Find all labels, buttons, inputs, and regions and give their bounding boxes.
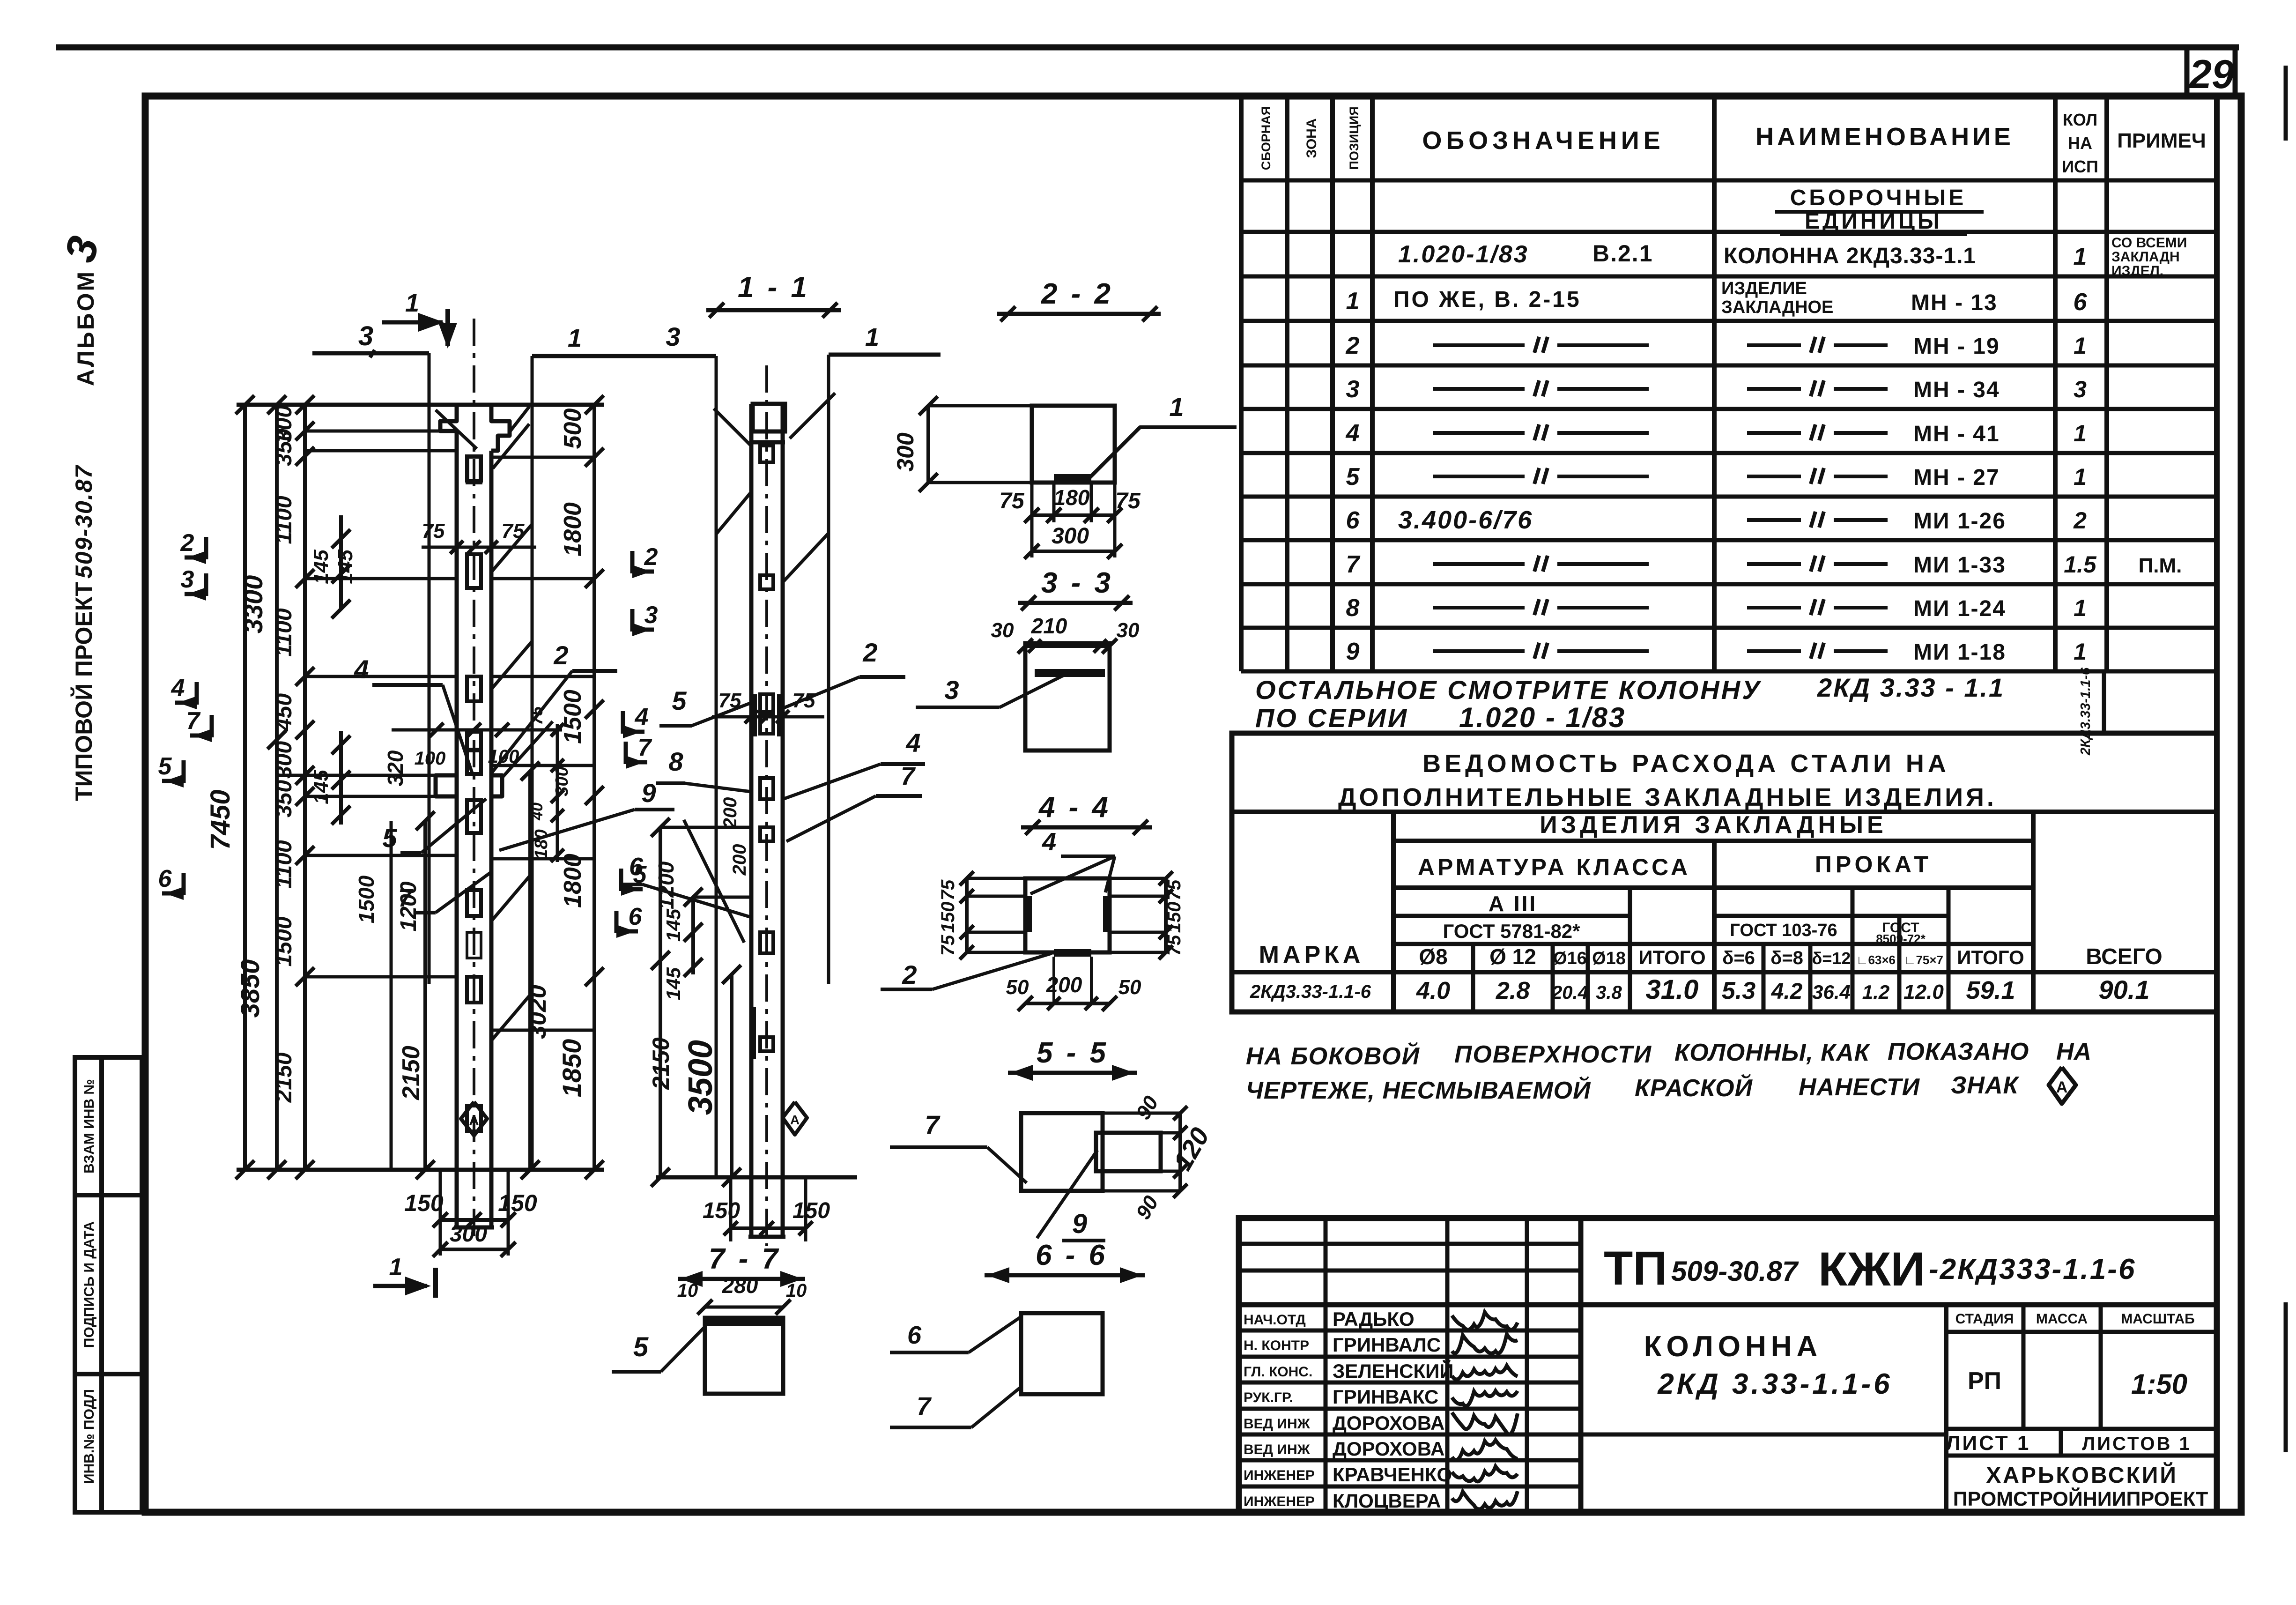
dim 145 pair (right view) bbox=[691, 897, 695, 974]
svg-text:3.400-6/76: 3.400-6/76 bbox=[1398, 506, 1533, 534]
specification table grid bbox=[1241, 178, 2217, 183]
svg-text:75: 75 bbox=[999, 489, 1025, 513]
svg-text:7: 7 bbox=[1346, 551, 1361, 578]
svg-text:150: 150 bbox=[1164, 902, 1185, 933]
tables right edge heavy line bbox=[2214, 96, 2220, 1512]
svg-text:4: 4 bbox=[1042, 828, 1056, 856]
svg-text:180: 180 bbox=[532, 829, 551, 859]
svg-text:1.020-1/83: 1.020-1/83 bbox=[1398, 241, 1529, 268]
section marker 3 bbox=[204, 573, 208, 596]
svg-text:ИЗДЕЛИЕ: ИЗДЕЛИЕ bbox=[1721, 279, 1807, 298]
diamond mark A right view bbox=[783, 1102, 807, 1135]
svg-text:1: 1 bbox=[1346, 288, 1360, 315]
dim line 145 pairs lower and 320 bbox=[339, 731, 343, 825]
svg-text:40: 40 bbox=[528, 802, 546, 821]
square 6-6 bbox=[1021, 1313, 1103, 1394]
svg-text:ГОСТ 5781-82*: ГОСТ 5781-82* bbox=[1443, 920, 1580, 942]
section cut vertical 3 (left view) bbox=[428, 353, 431, 984]
square 3-3 bbox=[1025, 643, 1110, 750]
svg-text:ТИПОВОЙ ПРОЕКТ: ТИПОВОЙ ПРОЕКТ bbox=[70, 582, 97, 801]
section marker 3 bbox=[630, 609, 635, 632]
svg-text:12.0: 12.0 bbox=[1903, 981, 1944, 1003]
svg-text:90.1: 90.1 bbox=[2099, 975, 2150, 1004]
svg-text:3: 3 bbox=[2074, 376, 2087, 402]
svg-text:7: 7 bbox=[925, 1110, 941, 1139]
svg-text:2 - 2: 2 - 2 bbox=[1041, 278, 1113, 310]
section line 1 top arrow (left view) bbox=[382, 320, 443, 325]
svg-text:ПОДПИСЬ И ДАТА: ПОДПИСЬ И ДАТА bbox=[81, 1221, 97, 1348]
svg-text:6: 6 bbox=[629, 903, 643, 930]
leaders right view top bbox=[714, 409, 751, 446]
section marker 4 bbox=[195, 682, 199, 705]
svg-text:200: 200 bbox=[1046, 973, 1082, 997]
svg-text:КРАСКОЙ: КРАСКОЙ bbox=[1635, 1074, 1753, 1102]
svg-text:3.8: 3.8 bbox=[1596, 982, 1622, 1003]
svg-text:2.8: 2.8 bbox=[1496, 977, 1530, 1004]
section marker 2 bbox=[204, 537, 208, 559]
svg-text:2КД3.33-1.1-6: 2КД3.33-1.1-6 bbox=[1250, 981, 1371, 1002]
svg-text:1: 1 bbox=[2074, 333, 2087, 359]
svg-text:5: 5 bbox=[633, 1332, 649, 1362]
svg-text:4.2: 4.2 bbox=[1771, 979, 1803, 1004]
diagonal leaders to cut line (left view) bbox=[436, 410, 477, 449]
svg-text:МН - 13: МН - 13 bbox=[1911, 290, 1998, 315]
svg-text:6 - 6: 6 - 6 bbox=[1036, 1239, 1108, 1271]
diamond mark A left view bbox=[461, 1102, 487, 1136]
svg-text:2КД 3.33 - 1.1: 2КД 3.33 - 1.1 bbox=[1817, 673, 2005, 702]
svg-text:1 - 1: 1 - 1 bbox=[738, 271, 810, 304]
svg-text:1100: 1100 bbox=[272, 496, 296, 544]
svg-text:НАИМЕНОВАНИЕ: НАИМЕНОВАНИЕ bbox=[1755, 123, 2014, 151]
svg-text:2: 2 bbox=[553, 640, 568, 670]
detail section 2-2 bbox=[892, 278, 1237, 559]
svg-text:ВЕДОМОСТЬ РАСХОДА СТАЛИ: ВЕДОМОСТЬ РАСХОДА СТАЛИ НА bbox=[1422, 750, 1950, 778]
title block right columns bbox=[1944, 1305, 1948, 1512]
svg-text:300: 300 bbox=[272, 741, 296, 779]
bottom main horizontal extension bbox=[237, 1168, 604, 1172]
svg-text:ИНВ.№ ПОДЛ: ИНВ.№ ПОДЛ bbox=[81, 1389, 97, 1484]
svg-text:ДОРОХОВА: ДОРОХОВА bbox=[1333, 1438, 1444, 1460]
dim chain small segments bbox=[303, 405, 307, 1170]
svg-text:150: 150 bbox=[792, 1198, 830, 1223]
embedded plates on left column bbox=[467, 456, 481, 481]
svg-text:1: 1 bbox=[2074, 595, 2087, 621]
svg-text:2150: 2150 bbox=[398, 1046, 425, 1100]
svg-text:1: 1 bbox=[2074, 639, 2087, 665]
extension lines left side bbox=[305, 430, 457, 433]
signature rows bbox=[1239, 1329, 1581, 1333]
svg-text:1: 1 bbox=[2074, 420, 2087, 446]
svg-text:МИ 1-33: МИ 1-33 bbox=[1913, 553, 2006, 578]
svg-text:КЖИ: КЖИ bbox=[1818, 1242, 1925, 1296]
svg-text:2: 2 bbox=[644, 543, 658, 571]
left column view group bbox=[205, 289, 674, 1298]
svg-text:А III: А III bbox=[1489, 892, 1537, 916]
section cut vertical left (right view) bbox=[715, 356, 718, 1177]
section marker 7 bbox=[624, 742, 628, 764]
svg-text:145: 145 bbox=[334, 550, 357, 584]
svg-text:ИТОГО: ИТОГО bbox=[1957, 946, 2024, 968]
svg-text:ДОПОЛНИТЕЛЬНЫЕ ЗАКЛАДНЫЕ И: ДОПОЛНИТЕЛЬНЫЕ ЗАКЛАДНЫЕ ИЗДЕЛИЯ. bbox=[1338, 783, 1997, 811]
svg-text:75: 75 bbox=[422, 520, 445, 542]
svg-text:5 - 5: 5 - 5 bbox=[1037, 1037, 1109, 1069]
svg-text:КЛОЦВЕРА: КЛОЦВЕРА bbox=[1333, 1490, 1441, 1512]
svg-text:ЛИСТ 1: ЛИСТ 1 bbox=[1946, 1432, 2031, 1455]
svg-text:450: 450 bbox=[272, 693, 296, 731]
svg-text:5: 5 bbox=[382, 823, 397, 853]
right column body bbox=[749, 404, 754, 1237]
svg-text:РАДЬКО: РАДЬКО bbox=[1333, 1308, 1415, 1330]
svg-text:3: 3 bbox=[644, 602, 658, 629]
svg-text:ВЕД ИНЖ: ВЕД ИНЖ bbox=[1244, 1416, 1311, 1432]
svg-text:145: 145 bbox=[310, 770, 333, 804]
svg-text:300: 300 bbox=[892, 432, 918, 472]
embedded plates on right column bbox=[760, 446, 773, 462]
svg-text:200: 200 bbox=[729, 844, 750, 876]
svg-text:8509-72*: 8509-72* bbox=[1876, 932, 1926, 946]
svg-text:∟75×7: ∟75×7 bbox=[1904, 953, 1943, 967]
svg-text:В.2.1: В.2.1 bbox=[1592, 240, 1653, 267]
detail section 7-7 bbox=[612, 1243, 807, 1394]
section marker 5 bbox=[182, 760, 186, 783]
callout 9 leader (right view) bbox=[684, 820, 744, 943]
svg-text:75: 75 bbox=[1164, 935, 1185, 956]
svg-text:НА: НА bbox=[2068, 134, 2092, 153]
dim line 145 pairs upper bbox=[339, 515, 343, 609]
svg-text:3300: 3300 bbox=[238, 575, 268, 634]
square 5-5 bbox=[1021, 1113, 1103, 1191]
svg-text:145: 145 bbox=[310, 550, 333, 584]
svg-text:509-30.87: 509-30.87 bbox=[1671, 1256, 1799, 1287]
svg-text:4 - 4: 4 - 4 bbox=[1038, 791, 1111, 824]
svg-text:5.3: 5.3 bbox=[1722, 977, 1755, 1004]
svg-text:Н. КОНТР: Н. КОНТР bbox=[1244, 1338, 1309, 1353]
svg-text:8: 8 bbox=[668, 747, 683, 776]
paint mark diamond bbox=[2049, 1067, 2076, 1104]
svg-text:ЧЕРТЕЖЕ, НЕСМЫВАЕМОЙ: ЧЕРТЕЖЕ, НЕСМЫВАЕМОЙ bbox=[1246, 1076, 1591, 1104]
svg-text:6: 6 bbox=[907, 1321, 922, 1349]
svg-text:145: 145 bbox=[662, 908, 684, 942]
bottom section arrow 1 (left view) bbox=[373, 1284, 427, 1288]
frame right scan marks bbox=[2284, 66, 2288, 141]
dim line 3300 3850 bbox=[275, 405, 279, 1170]
svg-text:1: 1 bbox=[1169, 392, 1184, 422]
svg-text:ПОКАЗАНО: ПОКАЗАНО bbox=[1888, 1038, 2029, 1065]
svg-text:7: 7 bbox=[901, 762, 916, 790]
svg-text:9: 9 bbox=[1346, 638, 1360, 665]
svg-text:ПОВЕРХНОСТИ: ПОВЕРХНОСТИ bbox=[1454, 1041, 1652, 1068]
svg-text:ПРИМЕЧ: ПРИМЕЧ bbox=[2117, 129, 2206, 152]
svg-text:АЛЬБОМ: АЛЬБОМ bbox=[73, 270, 99, 386]
svg-text:ЗЕЛЕНСКИЙ: ЗЕЛЕНСКИЙ bbox=[1333, 1360, 1453, 1382]
svg-text:ИСП: ИСП bbox=[2062, 157, 2098, 176]
section marker 6 bbox=[615, 911, 619, 933]
svg-text:59.1: 59.1 bbox=[1966, 976, 2015, 1004]
dim line 1200 and 2150 inner bbox=[423, 821, 427, 1170]
svg-text:1500: 1500 bbox=[354, 875, 378, 923]
bottom plate 4-4 bbox=[1054, 949, 1091, 957]
svg-text:1100: 1100 bbox=[272, 840, 296, 889]
svg-text:ВСЕГО: ВСЕГО bbox=[2086, 944, 2162, 969]
svg-text:ЛИСТОВ 1: ЛИСТОВ 1 bbox=[2082, 1434, 2192, 1454]
svg-text:МАСШТАБ: МАСШТАБ bbox=[2121, 1311, 2194, 1327]
svg-text:РУК.ГР.: РУК.ГР. bbox=[1244, 1390, 1293, 1405]
svg-text:СБОРОЧНЫЕ: СБОРОЧНЫЕ bbox=[1790, 186, 1967, 210]
svg-text:9: 9 bbox=[641, 778, 656, 808]
svg-text:ВЗАМ ИНВ №: ВЗАМ ИНВ № bbox=[81, 1079, 97, 1174]
dims 5-5 right 90 120 90 bbox=[1178, 1113, 1182, 1191]
top main horizontal extension bbox=[237, 403, 604, 407]
svg-text:9: 9 bbox=[1072, 1209, 1087, 1239]
section marker 6 bbox=[182, 873, 186, 895]
svg-text:75: 75 bbox=[938, 879, 958, 900]
square 7-7 bbox=[705, 1318, 783, 1394]
plate marks thick (right column) bbox=[752, 694, 757, 736]
svg-text:А: А bbox=[790, 1113, 800, 1127]
svg-text:МН - 27: МН - 27 bbox=[1913, 465, 2000, 490]
svg-text:7: 7 bbox=[398, 884, 414, 912]
svg-text:δ=8: δ=8 bbox=[1770, 948, 1803, 968]
section line 1 label (left view) bbox=[532, 354, 624, 358]
svg-text:210: 210 bbox=[1031, 614, 1067, 638]
svg-text:ИНЖЕНЕР: ИНЖЕНЕР bbox=[1244, 1468, 1315, 1483]
right dim line outer 500 1800 1500 1800 1850 bbox=[593, 405, 596, 1170]
svg-text:29: 29 bbox=[2188, 52, 2234, 97]
svg-text:ЗАКЛАДНОЕ: ЗАКЛАДНОЕ bbox=[1721, 297, 1833, 317]
svg-text:ПРОКАТ: ПРОКАТ bbox=[1815, 851, 1932, 877]
svg-text:30: 30 bbox=[991, 619, 1014, 642]
right column centerline bbox=[765, 365, 768, 1246]
svg-text:2150: 2150 bbox=[648, 1037, 674, 1090]
right column bottom closing bbox=[748, 1235, 785, 1239]
svg-text:ТП: ТП bbox=[1604, 1241, 1667, 1295]
title block outer bbox=[1239, 1218, 2217, 1512]
svg-text:2: 2 bbox=[1346, 332, 1360, 359]
svg-text:2150: 2150 bbox=[272, 1052, 296, 1103]
svg-text:1: 1 bbox=[2074, 243, 2087, 270]
svg-text:МИ 1-26: МИ 1-26 bbox=[1913, 509, 2006, 534]
svg-text:А: А bbox=[2056, 1078, 2068, 1096]
svg-text:ЗНАК: ЗНАК bbox=[1951, 1072, 2020, 1099]
svg-text:4: 4 bbox=[635, 704, 649, 731]
svg-text:5: 5 bbox=[158, 753, 172, 780]
dims 2-2 left 300 bbox=[926, 406, 930, 483]
detail section 4-4 bbox=[881, 791, 1185, 1011]
svg-text:ИНЖЕНЕР: ИНЖЕНЕР bbox=[1244, 1494, 1315, 1509]
svg-text:1: 1 bbox=[389, 1254, 403, 1281]
svg-text:РП: РП bbox=[1968, 1367, 2001, 1395]
svg-text:10: 10 bbox=[677, 1280, 698, 1301]
svg-text:150: 150 bbox=[498, 1190, 537, 1216]
svg-text:6: 6 bbox=[2074, 289, 2088, 316]
svg-text:СБОРНАЯ: СБОРНАЯ bbox=[1259, 106, 1273, 170]
svg-text:1500: 1500 bbox=[272, 916, 296, 966]
extension lines (right view) bbox=[660, 826, 751, 829]
svg-text:3: 3 bbox=[944, 675, 959, 705]
svg-text:МИ 1-18: МИ 1-18 bbox=[1913, 640, 2006, 665]
section marker 5 bbox=[619, 869, 623, 891]
section line 1 top (right view) bbox=[829, 353, 941, 357]
svg-text:1800: 1800 bbox=[559, 854, 586, 908]
svg-text:20.4: 20.4 bbox=[1551, 982, 1588, 1003]
svg-text:1500: 1500 bbox=[559, 690, 586, 744]
svg-text:3020: 3020 bbox=[524, 985, 551, 1039]
svg-text:МН - 34: МН - 34 bbox=[1913, 378, 2000, 402]
svg-text:ПОЗИЦИЯ: ПОЗИЦИЯ bbox=[1347, 106, 1361, 170]
svg-text:А: А bbox=[469, 1113, 479, 1129]
svg-text:3850: 3850 bbox=[235, 959, 265, 1018]
svg-text:1100: 1100 bbox=[272, 608, 296, 657]
svg-text:ИЗДЕЛ.: ИЗДЕЛ. bbox=[2111, 263, 2163, 279]
section line 3 top (left view) bbox=[312, 351, 429, 356]
dims 4-4 left bbox=[965, 878, 969, 952]
column bottom closing bbox=[454, 1226, 494, 1230]
svg-text:КОЛОННА 2КД3.33-1.1: КОЛОННА 2КД3.33-1.1 bbox=[1724, 244, 1976, 268]
svg-text:180: 180 bbox=[1054, 485, 1090, 510]
dim line total 7450 bbox=[243, 405, 247, 1170]
svg-text:НАНЕСТИ: НАНЕСТИ bbox=[1799, 1074, 1920, 1101]
svg-text:50: 50 bbox=[1006, 976, 1029, 999]
svg-text:-2КД333-1.1-6: -2КД333-1.1-6 bbox=[1929, 1253, 2136, 1285]
svg-text:1200: 1200 bbox=[654, 861, 678, 909]
svg-text:П.М.: П.М. bbox=[2139, 554, 2182, 577]
svg-text:СТАДИЯ: СТАДИЯ bbox=[1955, 1311, 2014, 1327]
svg-text:5: 5 bbox=[1346, 463, 1360, 490]
steel table grid bbox=[1232, 810, 2217, 814]
svg-text:СО ВСЕМИ: СО ВСЕМИ bbox=[2111, 235, 2187, 251]
svg-text:3 - 3: 3 - 3 bbox=[1041, 567, 1113, 599]
side plates 4-4 bbox=[1027, 896, 1032, 932]
svg-text:Ø16: Ø16 bbox=[1553, 949, 1587, 968]
svg-text:1850: 1850 bbox=[557, 1039, 586, 1098]
section line 3 top (right view) bbox=[569, 354, 716, 358]
svg-text:6: 6 bbox=[1346, 507, 1360, 534]
svg-text:ХАРЬКОВСКИЙ: ХАРЬКОВСКИЙ bbox=[1986, 1462, 2178, 1488]
svg-text:50: 50 bbox=[1118, 976, 1141, 999]
page number box bbox=[2187, 47, 2235, 96]
right column view group bbox=[569, 271, 941, 1246]
svg-text:4: 4 bbox=[905, 728, 920, 758]
svg-text:2КД3.33-1.1-6: 2КД3.33-1.1-6 bbox=[2078, 667, 2093, 756]
svg-text:ГРИНВАЛС: ГРИНВАЛС bbox=[1333, 1334, 1441, 1356]
svg-text:100: 100 bbox=[415, 748, 446, 769]
svg-text:4: 4 bbox=[1346, 420, 1360, 447]
dim 3500 (right view) bbox=[730, 974, 733, 1177]
section cut vertical right (right view) bbox=[827, 355, 830, 984]
svg-text:3: 3 bbox=[358, 321, 373, 351]
svg-text:509-30.87: 509-30.87 bbox=[71, 465, 97, 579]
steel consumption table outer bbox=[1232, 733, 2217, 1012]
svg-text:ИТОГО: ИТОГО bbox=[1638, 946, 1705, 968]
bottom-left inventory boxes bbox=[75, 1057, 142, 1512]
svg-text:НА: НА bbox=[2056, 1038, 2091, 1065]
svg-text:АРМАТУРА КЛАССА: АРМАТУРА КЛАССА bbox=[1418, 854, 1690, 880]
section marker 4 bbox=[621, 711, 625, 734]
svg-text:НАЧ.ОТД: НАЧ.ОТД bbox=[1244, 1312, 1306, 1328]
attached plate rect 5-5 bbox=[1096, 1133, 1161, 1171]
svg-text:Ø 12: Ø 12 bbox=[1489, 944, 1536, 969]
plate in 2-2 bbox=[1054, 474, 1091, 483]
svg-text:ЗАКЛАДН: ЗАКЛАДН bbox=[2111, 249, 2180, 265]
svg-text:ОСТАЛЬНОЕ СМОТРИТЕ КОЛОННУ: ОСТАЛЬНОЕ СМОТРИТЕ КОЛОННУ bbox=[1255, 675, 1762, 705]
svg-text:150: 150 bbox=[938, 902, 958, 933]
svg-text:МАРКА: МАРКА bbox=[1259, 941, 1364, 968]
extension lines right side bbox=[491, 456, 594, 459]
svg-text:МН - 41: МН - 41 bbox=[1913, 422, 2000, 446]
svg-text:1: 1 bbox=[865, 323, 879, 351]
svg-text:75: 75 bbox=[938, 935, 958, 956]
svg-text:4: 4 bbox=[171, 675, 185, 702]
svg-text:7 - 7: 7 - 7 bbox=[709, 1243, 781, 1275]
svg-text:280: 280 bbox=[722, 1273, 758, 1298]
svg-text:1.2: 1.2 bbox=[1862, 981, 1889, 1003]
svg-text:5: 5 bbox=[672, 686, 687, 715]
svg-text:Ø8: Ø8 bbox=[1419, 944, 1447, 969]
right column cap bbox=[753, 404, 785, 431]
svg-text:36.4: 36.4 bbox=[1812, 981, 1851, 1003]
dim line through corbel level 100 100 bbox=[392, 728, 562, 732]
svg-text:δ=12: δ=12 bbox=[1812, 949, 1851, 968]
svg-text:30: 30 bbox=[1117, 619, 1140, 642]
section cut vertical 1 (left view) bbox=[531, 356, 534, 1170]
svg-text:1: 1 bbox=[2074, 464, 2087, 490]
dim line 1200 (right view) bbox=[659, 827, 662, 1177]
svg-text:6: 6 bbox=[158, 865, 172, 892]
dim line 75 75 (right view) bbox=[712, 715, 824, 719]
svg-text:300: 300 bbox=[450, 1222, 487, 1247]
section marker 2 bbox=[630, 551, 635, 573]
svg-text:2КД 3.33-1.1-6: 2КД 3.33-1.1-6 bbox=[1657, 1368, 1892, 1400]
svg-text:7: 7 bbox=[917, 1392, 932, 1420]
title block top small rows bbox=[1239, 1242, 1581, 1246]
svg-text:1: 1 bbox=[405, 289, 419, 317]
svg-text:КОЛОННА: КОЛОННА bbox=[1644, 1330, 1822, 1363]
column centerline bbox=[473, 319, 475, 1237]
upper small plate near cap bbox=[467, 457, 481, 483]
svg-text:1.5: 1.5 bbox=[2064, 551, 2097, 578]
svg-text:2: 2 bbox=[902, 960, 917, 989]
svg-text:δ=6: δ=6 bbox=[1722, 948, 1755, 968]
svg-text:6: 6 bbox=[629, 853, 644, 881]
svg-text:75: 75 bbox=[1164, 879, 1185, 900]
sheet top scan edge line bbox=[56, 45, 2239, 51]
svg-text:∟63×6: ∟63×6 bbox=[1856, 953, 1896, 967]
svg-text:7450: 7450 bbox=[205, 789, 236, 850]
svg-text:3500: 3500 bbox=[682, 1040, 719, 1115]
svg-text:2: 2 bbox=[180, 529, 194, 557]
svg-text:ПО СЕРИИ: ПО СЕРИИ bbox=[1255, 703, 1408, 733]
svg-text:3: 3 bbox=[1346, 376, 1360, 403]
svg-text:10: 10 bbox=[786, 1280, 807, 1301]
svg-text:КРАВЧЕНКО: КРАВЧЕНКО bbox=[1333, 1464, 1452, 1486]
plate band 7-7 bbox=[705, 1318, 783, 1326]
svg-text:320: 320 bbox=[383, 750, 407, 786]
detail section 6-6 bbox=[890, 1239, 1145, 1427]
svg-text:ИЗДЕЛИЯ ЗАКЛАДНЫЕ: ИЗДЕЛИЯ ЗАКЛАДНЫЕ bbox=[1540, 811, 1887, 839]
svg-text:ЕДИНИЦЫ: ЕДИНИЦЫ bbox=[1805, 209, 1942, 234]
svg-text:4: 4 bbox=[354, 654, 369, 684]
svg-text:ВЕД ИНЖ: ВЕД ИНЖ bbox=[1244, 1442, 1311, 1457]
svg-text:ГРИНВАКС: ГРИНВАКС bbox=[1333, 1386, 1438, 1408]
callout 1 in 2-2 bbox=[1089, 427, 1237, 478]
title block verticals bbox=[1324, 1218, 1328, 1512]
svg-text:145: 145 bbox=[662, 967, 684, 1000]
svg-text:КОЛОННЫ, КАК: КОЛОННЫ, КАК bbox=[1674, 1039, 1871, 1066]
svg-text:200: 200 bbox=[720, 797, 741, 829]
column top cap outline bbox=[440, 405, 510, 451]
svg-text:350: 350 bbox=[272, 429, 296, 466]
svg-text:4.0: 4.0 bbox=[1416, 977, 1450, 1004]
